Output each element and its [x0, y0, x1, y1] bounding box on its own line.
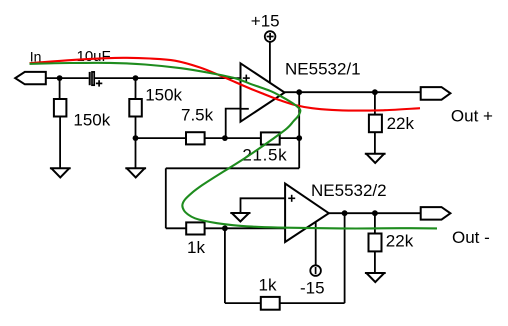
op-amp U1 plus sign: [243, 75, 250, 82]
capacitor C1 10uF negative plate: [89, 72, 91, 85]
resistor R6 1k: [261, 297, 280, 310]
wire node B down to R2: [135, 78, 137, 99]
junction R2/rail: [133, 135, 139, 141]
resistor R5 1k: [186, 222, 204, 234]
wire bottom rail right segment: [280, 137, 300, 139]
wire node D down: [224, 228, 226, 303]
svg-text:150k: 150k: [145, 85, 182, 104]
junction rail/feedback: [296, 135, 302, 141]
wire feedback up to U2 output: [344, 213, 346, 303]
wire R6 to right vertical: [280, 302, 345, 304]
wire R1 to ground: [59, 117, 61, 169]
ground 2: [125, 167, 146, 169]
junction U2 output: [342, 210, 348, 216]
wire -15 supply to U2: [315, 222, 317, 266]
wire R7 to ground: [374, 132, 376, 154]
resistor R2 150k: [129, 99, 142, 117]
wire into R5: [166, 227, 186, 229]
junction rail/U1 inverting: [222, 135, 228, 141]
junction Out+ / R7: [372, 89, 378, 95]
junction U2 inverting node: [222, 225, 228, 231]
svg-text:NE5532/2: NE5532/2: [311, 181, 387, 200]
wire +15 supply to U1: [269, 42, 271, 85]
wire input to capacitor: [46, 77, 89, 79]
wire R8 to ground: [374, 251, 376, 273]
op-amp U2 plus sign: [288, 195, 295, 202]
wire bottom rail mid segment: [205, 137, 261, 139]
svg-text:7.5k: 7.5k: [181, 106, 214, 125]
resistor R1 150k: [54, 99, 67, 117]
op-amp U1 NE5532/1: [241, 63, 285, 121]
wire node A down to R1: [59, 78, 61, 99]
junction Out- / R8: [372, 210, 378, 216]
connector Out -: [421, 207, 451, 220]
resistor R7 22k: [369, 115, 382, 133]
svg-text:22k: 22k: [386, 232, 414, 251]
op-amp U2 NE5532/2: [285, 184, 329, 243]
svg-text:-15: -15: [300, 279, 325, 298]
resistor R3 7.5k: [186, 132, 205, 144]
wire feedback horizontal to left: [166, 167, 299, 169]
capacitor C1 polarity plus: [96, 80, 102, 86]
wire feedback down from U1 output: [298, 92, 300, 168]
supply +15 symbol: [265, 31, 276, 42]
op-amp U1 minus sign: [241, 108, 249, 110]
ground 3: [365, 153, 386, 155]
wire capacitor to op-amp U1 + input: [95, 77, 241, 79]
wire Out- node down to R8: [374, 213, 376, 233]
wire R2 to ground: [135, 117, 137, 169]
wire U2 + input to ground: [241, 198, 286, 213]
junction U1 output: [296, 89, 302, 95]
svg-text:1k: 1k: [259, 275, 277, 294]
svg-text:Out +: Out +: [451, 107, 493, 126]
wire feedback vertical down: [165, 168, 167, 228]
red response curve: [30, 58, 421, 111]
node A junction: [57, 75, 63, 81]
connector Out +: [421, 87, 451, 100]
wire bottom rail left segment: [136, 137, 187, 139]
wire Out+ node down to R7: [374, 92, 376, 114]
svg-text:+15: +15: [251, 12, 280, 31]
supply -15 symbol: [310, 265, 321, 276]
resistor R8 22k: [369, 234, 382, 252]
green response curve: [30, 63, 438, 229]
ground 5: [365, 272, 386, 274]
svg-text:150k: 150k: [73, 110, 110, 129]
resistor R4 21.5k: [261, 132, 280, 144]
connector In: [15, 72, 46, 84]
svg-text:22k: 22k: [387, 114, 415, 133]
ground 4: [230, 212, 250, 214]
wire bottom to R6: [225, 302, 261, 304]
wire U2 output to Out- connector: [329, 212, 421, 214]
svg-text:NE5532/1: NE5532/1: [285, 60, 361, 79]
wire U1 inverting input to rail: [226, 109, 241, 139]
svg-text:Out -: Out -: [452, 228, 490, 247]
wire U1 output to Out+ connector: [285, 91, 421, 93]
ground 1: [50, 167, 71, 169]
node B junction: [133, 75, 139, 81]
svg-text:1k: 1k: [187, 238, 205, 257]
capacitor C1 10uF positive plate box: [92, 72, 94, 85]
wire R5 to U2 inverting input: [205, 227, 286, 229]
